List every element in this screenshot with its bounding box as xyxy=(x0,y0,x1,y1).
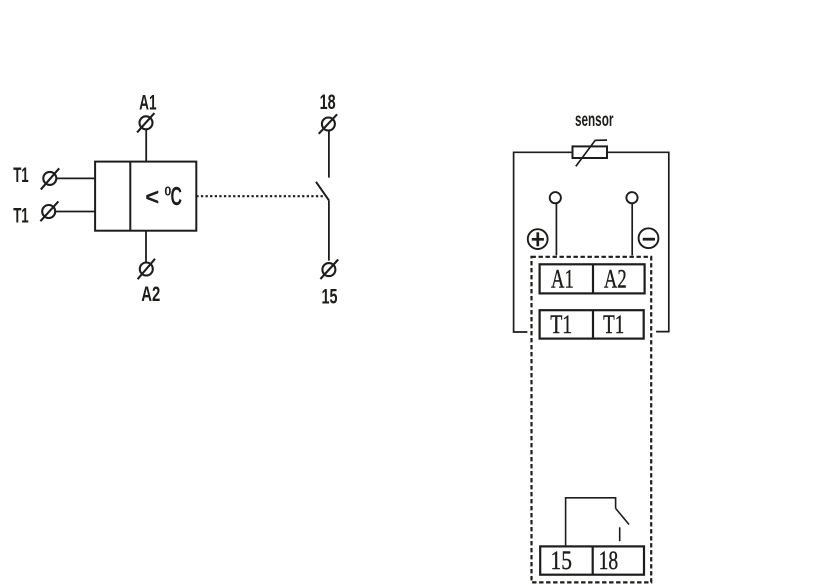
terminal block T1 T1 xyxy=(540,310,644,338)
svg-text:A2: A2 xyxy=(604,264,627,293)
label < 0C xyxy=(145,181,182,211)
terminal A1 xyxy=(137,113,154,132)
terminal 18 xyxy=(319,114,337,134)
terminal block 15 18 xyxy=(540,546,644,574)
wire A1 to relay box xyxy=(145,129,147,161)
terminal T1 top xyxy=(41,168,59,189)
svg-text:A1: A1 xyxy=(139,91,157,114)
terminal T1 bottom xyxy=(40,201,58,221)
wire sensor loop right xyxy=(607,152,669,331)
relay device box U1 xyxy=(95,162,196,231)
polarity minus symbol xyxy=(639,228,659,248)
wire 15 riser xyxy=(566,498,616,547)
terminal 15 xyxy=(320,260,338,280)
polarity plus symbol xyxy=(528,229,548,249)
terminal minus node xyxy=(626,192,637,203)
svg-text:18: 18 xyxy=(599,546,619,575)
terminal A2 xyxy=(138,259,155,279)
wire 18 stub xyxy=(619,527,621,541)
wire sensor loop left xyxy=(514,152,573,332)
dotted control link xyxy=(196,195,324,197)
svg-text:T1: T1 xyxy=(550,310,572,339)
wire minus to A2 xyxy=(631,203,633,255)
wire plus to A1 xyxy=(555,203,557,255)
svg-text:T1: T1 xyxy=(13,205,29,228)
wire T1 bottom to relay box xyxy=(55,211,95,213)
wire A2 from relay box xyxy=(145,231,147,263)
svg-text:T1: T1 xyxy=(13,164,29,187)
wire T1 top to relay box xyxy=(56,177,95,179)
svg-text:15: 15 xyxy=(551,546,572,575)
svg-text:C: C xyxy=(171,181,183,211)
contact blade 18-15 xyxy=(316,182,329,201)
svg-text:<: < xyxy=(145,184,159,211)
svg-text:15: 15 xyxy=(322,286,338,309)
svg-text:sensor: sensor xyxy=(575,110,614,131)
svg-text:18: 18 xyxy=(320,91,336,114)
device outline dashed xyxy=(532,257,652,583)
svg-text:A1: A1 xyxy=(551,264,574,293)
terminal block A1 A2 xyxy=(540,264,645,293)
svg-text:T1: T1 xyxy=(603,310,624,339)
wire 15 xyxy=(328,200,330,260)
terminal plus node xyxy=(550,192,561,203)
wire 18 fixed contact xyxy=(328,130,330,177)
relay contact blade xyxy=(616,508,629,524)
svg-text:A2: A2 xyxy=(141,283,160,306)
sensor thermistor xyxy=(573,140,608,166)
